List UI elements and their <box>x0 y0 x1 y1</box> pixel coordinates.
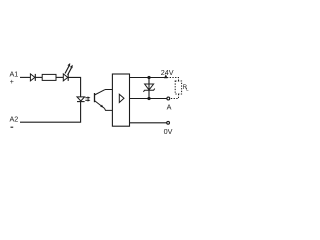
optocoupler LED <box>77 97 85 102</box>
svg-text:24V: 24V <box>161 68 174 77</box>
LED emission arrows <box>65 63 73 75</box>
dashed wire 24V to RL <box>167 78 179 82</box>
optocoupler phototransistor <box>95 90 105 109</box>
polarity label - <box>11 126 14 128</box>
LED indicator <box>63 74 68 81</box>
svg-text:+: + <box>10 79 14 86</box>
wire 24V rail <box>130 77 167 79</box>
wire optocoupler LED to A2 <box>20 102 81 123</box>
wire A1 to D1 <box>20 76 30 78</box>
svg-text:A: A <box>167 103 172 112</box>
terminal label A1 <box>10 70 19 79</box>
junction dot zener top <box>147 76 150 79</box>
optocoupler light arrows <box>85 96 90 101</box>
label RL <box>183 85 190 91</box>
wire emitter to amplifier <box>105 108 113 110</box>
zener diode Z1 <box>143 78 154 99</box>
junction dot zener bottom <box>147 97 150 100</box>
svg-text:L: L <box>186 86 189 91</box>
label A <box>167 103 172 112</box>
polarity label + <box>10 79 14 86</box>
amplifier triangle symbol <box>119 94 124 102</box>
wire 0V rail <box>130 122 167 124</box>
label 24V <box>161 68 174 77</box>
label 0V <box>164 127 173 136</box>
terminal circle 0V <box>167 121 170 124</box>
wire R1 to LED <box>56 76 63 78</box>
wire LED to optocoupler LED <box>68 77 80 96</box>
terminal label A2 <box>10 115 19 124</box>
amplifier box U2 <box>112 74 129 126</box>
wire collector to amplifier <box>105 89 113 91</box>
resistor R1 <box>42 74 56 80</box>
supply arrow 24V <box>164 74 168 78</box>
wire output A rail <box>130 98 167 100</box>
dashed wire RL to A <box>171 94 179 99</box>
diode D1 <box>30 74 35 81</box>
svg-text:A2: A2 <box>10 115 19 124</box>
wire D1 to R1 <box>35 76 42 78</box>
terminal circle A <box>167 97 170 100</box>
svg-text:A1: A1 <box>10 70 19 79</box>
svg-text:0V: 0V <box>164 127 173 136</box>
load resistor RL (dashed) <box>175 81 181 94</box>
